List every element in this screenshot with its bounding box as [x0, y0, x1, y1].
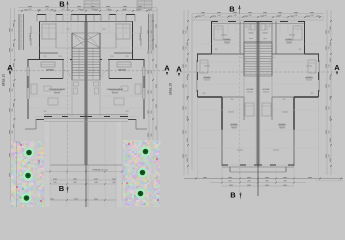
- left plan bottom dimension line 1: [45, 179, 130, 181]
- left plan dining table right: [114, 98, 124, 105]
- svg-text:215: 215: [265, 29, 268, 31]
- left plan door arc left entry: [63, 70, 70, 77]
- left plan stair side walls: [71, 33, 73, 80]
- svg-text:HODNIK: HODNIK: [247, 89, 255, 91]
- left plan garden walkway band left: [45, 121, 51, 207]
- right plan bottom extension lines: [221, 167, 223, 186]
- left plan garden walkway band right: [117, 121, 123, 207]
- right plan bed mid-right: [308, 60, 316, 73]
- svg-text:215: 215: [103, 29, 106, 31]
- left plan top room partition right: [115, 22, 117, 49]
- left plan living room sofa left: [31, 84, 37, 94]
- right plan top wall sill: [211, 22, 305, 24]
- right plan wc label smudges: [249, 32, 254, 35]
- svg-text:12.5 m2: 12.5 m2: [263, 92, 269, 94]
- left plan bottom wall sill lines: [44, 114, 128, 116]
- left plan living room table right: [121, 86, 128, 91]
- left plan party wall double line: [87, 22, 89, 166]
- right plan bathroom partition right: [275, 22, 277, 55]
- right plan terrace side lines: [229, 167, 231, 172]
- right plan lower block left wall light continuation: [221, 130, 223, 166]
- right plan stair bottom edge: [244, 75, 272, 77]
- left plan side ramp left: [18, 14, 20, 50]
- left plan right dimension line 3: [156, 8, 158, 201]
- left plan interior faint verticals: [45, 22, 47, 34]
- left plan corridor wall left y53: [40, 52, 59, 54]
- svg-text:B: B: [230, 191, 236, 200]
- right plan lower wing wall left: [198, 96, 223, 98]
- left plan upper left outer wall: [39, 22, 41, 61]
- right plan right dimension ticks: [330, 20, 332, 22]
- tree right 1 canopy: [143, 149, 149, 155]
- right plan wc room partitions: [243, 22, 245, 43]
- right plan left dimension line 3: [191, 14, 193, 170]
- left plan interior partition left unit vertical: [62, 60, 64, 79]
- right plan right dimension smudges: [325, 30, 328, 34]
- left plan garden extension line 4: [121, 121, 123, 200]
- right plan lower block left wall: [221, 97, 223, 130]
- tree left 1 center: [28, 152, 30, 154]
- right plan upper left outer wall: [211, 22, 213, 55]
- tree right 2 canopy: [140, 170, 146, 176]
- left plan stair void box with X bracing: [72, 33, 100, 48]
- left plan staircase treads: [72, 48, 100, 50]
- left plan bottom outer dimension ticks: [14, 199, 16, 201]
- right plan right dimension line 2: [330, 10, 332, 175]
- landscaping accents: [20, 144, 22, 146]
- right plan interior faint verticals: [217, 23, 219, 33]
- right plan right wing wall horizontal: [305, 53, 320, 55]
- left plan right dimension line 1: [148, 10, 150, 180]
- right plan left dimension ticks: [187, 20, 189, 22]
- right plan lower block right wall: [293, 97, 295, 130]
- svg-text:12.5 m2: 12.5 m2: [306, 80, 312, 82]
- right plan left dimension line 1: [183, 10, 185, 175]
- right plan mid-block right wall with windows: [318, 54, 320, 97]
- tree right 2 center: [142, 172, 144, 174]
- right plan door arc left: [240, 57, 246, 63]
- right plan bathroom partition left: [239, 22, 241, 55]
- svg-text:Ulica 10: Ulica 10: [2, 74, 6, 86]
- left plan top dimension ticks: [21, 10, 23, 12]
- left plan hallway lines right: [100, 47, 116, 49]
- svg-text:215: 215: [283, 99, 286, 101]
- left plan interior wall under wing right: [109, 78, 132, 80]
- svg-text:215: 215: [299, 49, 302, 51]
- right plan top dimension line 2: [192, 16, 324, 18]
- right plan mid-block right wall sills: [319, 60, 321, 92]
- right plan party wall: [257, 22, 259, 168]
- right plan top dimension line 1: [192, 13, 324, 15]
- right plan hall wall left: [212, 53, 245, 55]
- svg-text:TERASA 24.0 m2: TERASA 24.0 m2: [92, 169, 109, 172]
- left plan right dimension smudges: [147, 30, 150, 34]
- left plan left dimension line 1: [10, 8, 12, 201]
- left plan stair core side extensions: [71, 80, 73, 117]
- left plan garden extension line 1: [49, 121, 51, 200]
- svg-text:215: 215: [44, 56, 47, 58]
- svg-text:215: 215: [59, 56, 62, 58]
- svg-text:HODNIK: HODNIK: [263, 89, 271, 91]
- tree right 3 center: [140, 193, 142, 195]
- left plan living room sofa right: [135, 84, 141, 94]
- left plan top room furniture left: [42, 24, 56, 39]
- left plan terrace step right: [135, 119, 137, 129]
- right plan bottom wall with window gaps: [222, 164, 294, 166]
- svg-text:215: 215: [311, 93, 314, 95]
- tree right 2 halo: [138, 168, 148, 178]
- right plan mid-block left wall with windows: [197, 54, 199, 97]
- walkway in right strip: [150, 140, 154, 207]
- section line B-B right plan: [239, 13, 241, 192]
- left plan left dimension ticks: [14, 20, 16, 22]
- right plan bottom dimension line 2: [210, 182, 306, 184]
- svg-text:215: 215: [44, 111, 47, 113]
- left plan left dimension smudges: [8, 28, 11, 32]
- svg-text:215: 215: [126, 56, 129, 58]
- right plan left dimension line 2: [187, 10, 189, 175]
- tree left 1 canopy: [26, 150, 32, 156]
- left plan interior faint horizontals: [29, 32, 71, 34]
- section line A-A right plan: [176, 71, 337, 73]
- left plan interior wall under wing left: [40, 78, 63, 80]
- left plan mid-block right wall with windows: [143, 60, 145, 120]
- left plan bottom outer dimension line: [11, 199, 158, 201]
- left plan side ramp right: [152, 14, 154, 50]
- right plan bed top-right: [293, 26, 302, 40]
- tree left 3 halo: [22, 193, 32, 203]
- left plan top room furniture right: [116, 24, 130, 39]
- right plan corridor wall left: [222, 96, 244, 98]
- right landscaping strip base: [123, 140, 160, 207]
- right plan terrace slab below: [230, 171, 286, 173]
- svg-text:Ulica 10: Ulica 10: [169, 83, 173, 95]
- left plan wc fixtures left: [74, 82, 79, 86]
- svg-text:A: A: [164, 64, 170, 73]
- right plan stair top landing: [244, 41, 272, 43]
- right plan lower block right wall light continuation: [293, 130, 295, 166]
- right landscaping strip mosaic: [123, 140, 161, 208]
- left plan top inner wall: [39, 21, 133, 23]
- left plan top room partition left: [55, 22, 57, 49]
- tree left 2 canopy: [25, 173, 31, 179]
- left plan living room smudges: [52, 89, 62, 92]
- tree right 3 canopy: [138, 191, 144, 197]
- right plan hall wall right: [272, 53, 305, 55]
- section line A-A left plan: [7, 70, 165, 72]
- left plan bottom dimension ticks: [49, 183, 51, 185]
- left plan stair walk lines: [78, 49, 80, 80]
- right plan bottom dimension line 1: [184, 178, 343, 180]
- left plan mid-block left wall with windows: [27, 60, 29, 120]
- left plan garden extension line 5: [115, 165, 117, 207]
- left landscaping strip mosaic: [11, 141, 45, 207]
- svg-text:215: 215: [203, 93, 206, 95]
- left plan bottom wing wall right: [128, 119, 136, 121]
- right plan door arc right: [270, 57, 276, 63]
- svg-text:B: B: [229, 5, 235, 14]
- right plan room smudges: [221, 34, 227, 37]
- left plan hallway lines left: [56, 47, 72, 49]
- left plan mid-block right wall window sill lines: [144, 67, 146, 99]
- left plan party wall: [85, 15, 87, 166]
- svg-text:215: 215: [215, 49, 218, 51]
- right plan bed bottom-right: [262, 103, 271, 116]
- left plan top dimension line 2: [18, 10, 157, 12]
- tree right 1 halo: [141, 147, 151, 157]
- left plan left dimension line 2: [14, 8, 16, 201]
- left plan bottom wall right half with window gaps: [86, 116, 128, 118]
- left plan living room table left: [44, 86, 51, 91]
- tree left 3 canopy: [24, 195, 30, 201]
- left plan right dimension ticks: [152, 20, 154, 22]
- right plan corridor wall right: [272, 96, 294, 98]
- right plan bottom wall sill: [222, 166, 294, 168]
- left plan upper right outer wall: [132, 22, 134, 61]
- left plan top balcony wall with window gaps: [37, 14, 135, 16]
- right plan bed top-left: [214, 26, 223, 40]
- right plan bed bottom-left: [245, 103, 254, 116]
- left plan bottom dimension smudges: [53, 178, 57, 181]
- left plan right dimension line 2: [152, 10, 154, 180]
- right plan stair walls lower continuation: [243, 76, 245, 98]
- left plan corridor wall right y53: [114, 52, 133, 54]
- left plan garden extension line 2: [66, 121, 68, 207]
- right plan left dimension smudges: [182, 30, 185, 34]
- tree right 3 halo: [136, 189, 146, 199]
- left plan door arc right entry: [102, 70, 109, 77]
- right plan top dimension smudges: [201, 11, 205, 14]
- right plan left wing wall horizontal: [197, 53, 212, 55]
- svg-text:12.5 m2: 12.5 m2: [204, 80, 210, 82]
- left plan mid-block left wall window sill lines: [26, 67, 28, 99]
- right plan bottom dimension line 3: [222, 185, 294, 187]
- left plan bottom wall left half with window gaps: [44, 116, 86, 118]
- right plan party wall lower stub: [257, 165, 259, 196]
- right plan lower wing wall right: [294, 96, 319, 98]
- right plan staircase treads: [244, 43, 272, 45]
- svg-text:215: 215: [231, 99, 234, 101]
- left plan party wall garden continuation: [85, 165, 87, 207]
- svg-text:215: 215: [249, 29, 252, 31]
- fence line in left strip: [16, 141, 18, 207]
- left plan kitchen counter right: [117, 62, 131, 67]
- right plan lower room partitions: [243, 97, 245, 120]
- right plan bathroom fixtures left: [246, 24, 250, 27]
- left plan interior extension lines: [49, 11, 51, 22]
- left plan bottom wing wall left: [36, 119, 44, 121]
- right plan bathroom fixtures right: [266, 24, 270, 27]
- tree left 2 center: [27, 175, 29, 177]
- left plan terrace slab edge: [50, 164, 122, 166]
- svg-text:215: 215: [126, 111, 129, 113]
- svg-text:215: 215: [67, 29, 70, 31]
- right plan bottom dimension ticks: [195, 178, 197, 180]
- left plan terrace lower edge line: [44, 121, 128, 123]
- right plan side extension lines: [197, 97, 199, 178]
- right plan interior faint horizontals: [199, 43, 255, 45]
- left plan dining table left: [48, 98, 58, 105]
- walkway in left strip: [34, 141, 39, 207]
- right plan top wall with window gaps: [211, 21, 305, 23]
- svg-text:215: 215: [111, 56, 114, 58]
- tree left 3 center: [26, 197, 28, 199]
- left plan balcony mullions: [36, 15, 38, 22]
- right plan mid-block left wall sills: [195, 60, 197, 92]
- left plan top dimension smudges: [28, 5, 32, 8]
- left plan terrace dimension line: [45, 171, 127, 173]
- left plan wc fixtures right: [94, 82, 99, 86]
- left plan stair bottom landing: [72, 79, 100, 81]
- right plan bed mid-left: [200, 60, 208, 73]
- right plan top dimension line 3: [192, 19, 324, 21]
- left plan exterior stair ladder top right: [137, 0, 152, 1]
- left plan kitchen counter left: [41, 62, 55, 67]
- left plan terrace step left: [35, 119, 37, 129]
- left landscaping strip base: [11, 141, 44, 207]
- left plan top dimension line 1: [18, 7, 157, 9]
- left plan exterior stair ladder top center: [84, 0, 100, 2]
- tree right 1 center: [145, 151, 147, 153]
- right plan party wall double lines: [255, 22, 257, 166]
- section line B-B left plan: [67, 9, 69, 186]
- right plan top dimension ticks: [195, 16, 197, 18]
- left plan garden extension line 3: [104, 121, 106, 207]
- tree left 2 halo: [23, 171, 33, 181]
- left plan left wing wall horizontal: [28, 59, 73, 61]
- tree left 1 halo: [24, 148, 34, 158]
- left plan right wing wall horizontal: [100, 59, 145, 61]
- right plan interior extension lines: [221, 17, 223, 22]
- right plan bottom dimension smudges: [203, 176, 207, 179]
- svg-text:B: B: [59, 184, 65, 193]
- svg-text:12.5 m2: 12.5 m2: [247, 92, 253, 94]
- svg-text:A: A: [334, 63, 340, 72]
- svg-text:B: B: [59, 0, 65, 9]
- right plan right dimension line 1: [326, 10, 328, 175]
- left plan bottom dimension line 2: [45, 183, 130, 185]
- right plan bottom dimension line 1b: [315, 180, 343, 182]
- right plan stair core walls: [243, 42, 245, 76]
- right plan upper right outer wall: [304, 22, 306, 55]
- left plan interior partition right unit vertical: [108, 60, 110, 79]
